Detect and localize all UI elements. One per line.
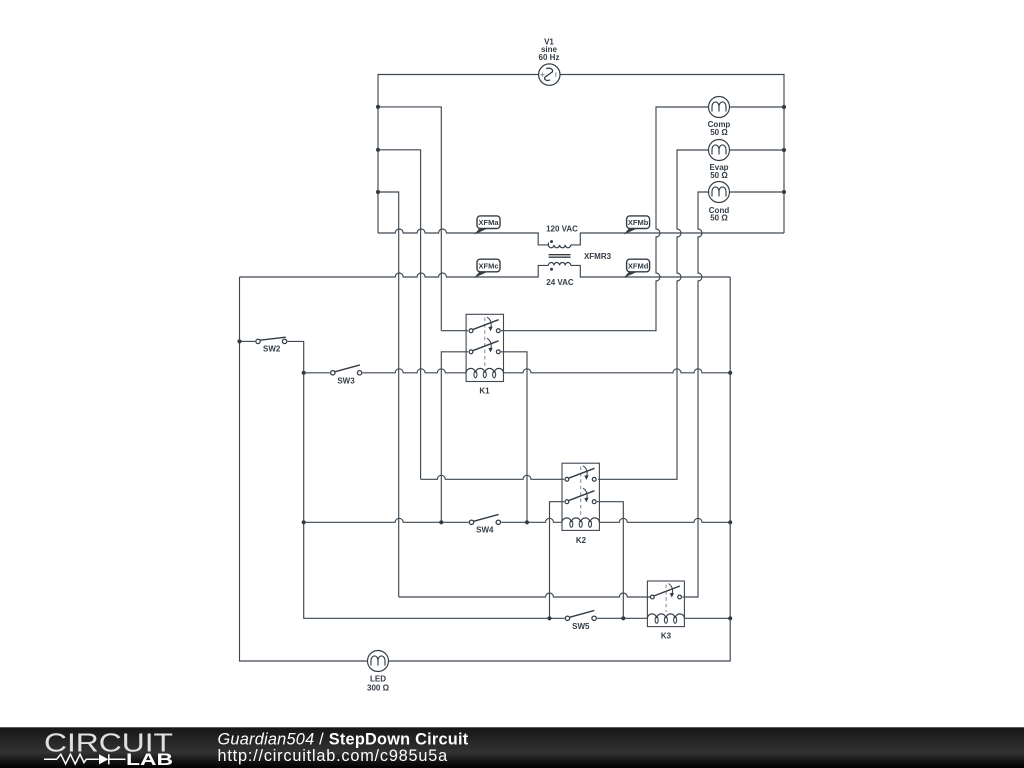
svg-text:XFMR3: XFMR3 (584, 252, 612, 261)
svg-text:50 Ω: 50 Ω (710, 214, 728, 223)
svg-text:300 Ω: 300 Ω (367, 683, 390, 692)
svg-text:http://circuitlab.com/c985u5a: http://circuitlab.com/c985u5a (218, 747, 449, 765)
svg-text:60 Hz: 60 Hz (539, 53, 560, 62)
svg-text:SW2: SW2 (263, 344, 281, 353)
svg-text:K2: K2 (576, 536, 587, 545)
svg-text:XFMc: XFMc (478, 262, 498, 271)
svg-text:SW3: SW3 (337, 377, 355, 386)
svg-text:XFMb: XFMb (628, 218, 649, 227)
svg-text:K1: K1 (479, 387, 490, 396)
svg-text:LAB: LAB (126, 751, 173, 768)
svg-text:50 Ω: 50 Ω (710, 128, 728, 137)
svg-text:SW4: SW4 (476, 526, 494, 535)
svg-text:120 VAC: 120 VAC (546, 225, 578, 234)
svg-text:K3: K3 (661, 632, 672, 641)
svg-text:XFMa: XFMa (478, 218, 499, 227)
svg-text:LED: LED (370, 674, 386, 683)
svg-text:Guardian504 / StepDown Circuit: Guardian504 / StepDown Circuit (218, 731, 469, 749)
svg-text:24 VAC: 24 VAC (546, 278, 574, 287)
svg-text:50 Ω: 50 Ω (710, 171, 728, 180)
svg-text:XFMd: XFMd (628, 262, 649, 271)
svg-text:SW5: SW5 (572, 622, 590, 631)
